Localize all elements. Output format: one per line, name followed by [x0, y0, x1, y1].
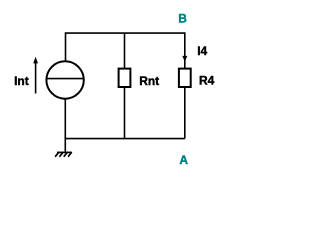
- current I4 arrow head: [182, 56, 187, 62]
- svg-text:R4: R4: [199, 74, 215, 88]
- ground hatch 4: [68, 152, 72, 156]
- current source Int bar: [47, 78, 84, 80]
- wire top rail from current source top to node B corner, down to R4: [66, 33, 185, 68]
- ground hatch 1: [55, 152, 59, 156]
- wire Rnt top stub: [124, 33, 126, 68]
- resistor Rnt body: [119, 69, 131, 87]
- ground hatch 2: [59, 152, 63, 156]
- svg-text:A: A: [179, 153, 188, 167]
- ground hatch 3: [64, 152, 68, 156]
- resistor R4 body: [179, 69, 191, 87]
- current source direction arrow head: [33, 57, 38, 64]
- svg-text:Int: Int: [14, 74, 29, 88]
- current source Int circle: [46, 61, 83, 98]
- wire current source bottom to ground: [64, 98, 66, 152]
- current source direction arrow shaft: [35, 63, 37, 94]
- svg-text:I4: I4: [197, 44, 207, 58]
- svg-text:Rnt: Rnt: [139, 74, 159, 88]
- svg-text:B: B: [178, 12, 187, 26]
- ground bar: [57, 151, 72, 153]
- wire bottom rail: [65, 138, 185, 140]
- wire R4 bottom stub: [184, 87, 186, 139]
- wire Rnt bottom stub: [124, 87, 126, 139]
